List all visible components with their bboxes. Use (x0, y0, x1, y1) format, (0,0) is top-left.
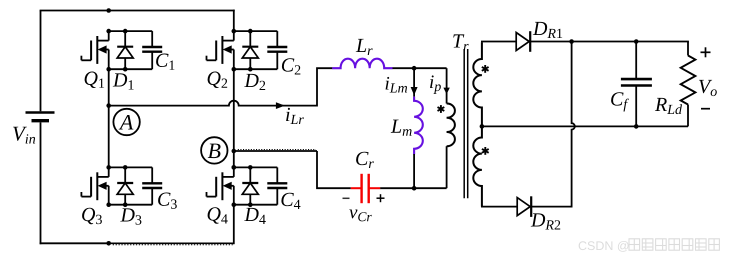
label C1 (156, 54, 174, 70)
wire Q2 branch top (233, 10, 235, 32)
node B cell junction (232, 165, 237, 170)
label Lm (391, 120, 412, 136)
wire junction to primary (414, 67, 447, 69)
wire Q1-Q3 branch mid (108, 69, 110, 167)
transistor Q4 (207, 165, 237, 207)
arrow iLm (411, 87, 418, 95)
wire (234, 68, 277, 70)
capacitor C1 (142, 31, 162, 69)
wire bottom rail solid (40, 242, 109, 244)
label Cf (611, 92, 629, 111)
label plus Vo (701, 51, 711, 53)
label Vin (13, 127, 35, 144)
resistor RLd (681, 56, 696, 105)
inductor Lr (332, 59, 392, 69)
wire (234, 204, 277, 206)
wire RLd branch bottom (687, 105, 689, 127)
label D2 (244, 74, 265, 90)
wire secondary bottom to DR2 (481, 206, 517, 208)
node A junction (106, 103, 111, 108)
capacitor C2 (267, 31, 287, 69)
watermark cjk blocks (629, 239, 719, 250)
node Lr/Lm junction (412, 66, 417, 71)
label D4 (244, 208, 265, 224)
node Cf top junction (634, 39, 639, 44)
wire node B textured (234, 150, 317, 152)
label iLr (286, 108, 304, 124)
wire Lm branch lower (413, 154, 415, 188)
node bottom-rail/Q3 junction (106, 241, 111, 246)
label Q3 (82, 208, 102, 224)
transformer Tr core (463, 49, 465, 198)
wire (109, 68, 153, 70)
wire center tap to output (482, 125, 688, 127)
wire (234, 30, 277, 32)
winding secondary bottom (473, 126, 482, 206)
polarity star primary (440, 105, 442, 113)
inductor Lm (414, 97, 423, 155)
label D1 (113, 73, 134, 89)
label ip (430, 75, 441, 94)
wire left rail upper (40, 11, 42, 112)
label Tr (453, 34, 468, 50)
label DR1 (533, 22, 562, 38)
transistor Q1 (81, 29, 111, 72)
node B circle (201, 137, 227, 163)
wire Lm branch upper (413, 68, 415, 96)
label D3 (120, 208, 141, 224)
polarity star secondary bottom (484, 147, 486, 155)
diode D1 (117, 29, 133, 72)
label plus vCr (377, 197, 385, 199)
node A circle (113, 109, 139, 135)
label Vo (699, 80, 717, 96)
node center tap (480, 124, 485, 129)
wire Cr to junction (380, 187, 414, 189)
wire (109, 30, 153, 32)
winding secondary top (473, 42, 482, 126)
wire primary upper (446, 68, 448, 103)
label RLd (655, 98, 682, 114)
transistor Q2 (207, 29, 237, 72)
watermark CSDN (579, 241, 629, 252)
wire (109, 166, 153, 168)
wire junction to primary bottom (414, 187, 447, 189)
label minus Vo (701, 108, 710, 110)
diode DR1 (516, 31, 530, 52)
label C2 (282, 58, 300, 74)
label C3 (158, 192, 177, 208)
label Q2 (208, 72, 228, 88)
node B junction (232, 149, 237, 154)
diode D4 (242, 165, 258, 207)
wire secondary top to DR1 (481, 41, 516, 43)
node Cr/Lm junction (412, 186, 417, 191)
capacitor Cf (621, 42, 652, 127)
label Q1 (85, 72, 104, 88)
wire DR2 up with crossover hop (530, 42, 575, 207)
wire bottom rail textured (109, 242, 234, 244)
label C4 (281, 193, 300, 209)
label DR2 (531, 213, 560, 229)
wire DR1 to top rail (529, 41, 689, 43)
transistor Q3 (81, 165, 111, 207)
node Cf bottom junction (634, 124, 639, 129)
wire (234, 166, 277, 168)
diode D2 (242, 29, 258, 72)
label iLm (386, 77, 408, 93)
diode DR2 (517, 196, 531, 217)
battery Vin (26, 113, 55, 121)
wire node A to Lr with crossover hop (109, 68, 333, 105)
label Lr (356, 39, 373, 55)
wire left rail lower (40, 122, 42, 244)
wire B corner down to Cr (317, 151, 351, 188)
arrow ip (443, 88, 449, 95)
capacitor C3 (142, 167, 162, 204)
node DR1/DR2 rail junction (569, 39, 574, 44)
label vCr (349, 209, 371, 221)
wire primary lower (446, 146, 448, 188)
wire (109, 204, 153, 206)
node top-rail/Q1 junction (106, 8, 111, 13)
wire top rail (40, 10, 235, 12)
label Cr (356, 152, 374, 168)
wire Q2-Q4 branch mid (233, 69, 235, 167)
wire Q4 branch bottom (233, 205, 235, 245)
diode D3 (117, 165, 133, 207)
label Q4 (208, 207, 228, 223)
label minus vCr (343, 197, 350, 199)
wire Lr to junction (393, 67, 415, 69)
winding primary (447, 103, 455, 146)
arrow iLr (276, 102, 285, 109)
capacitor C4 (267, 167, 287, 204)
wire RLd branch top (687, 42, 689, 56)
polarity star secondary top (484, 65, 486, 73)
capacitor Cr (351, 174, 381, 203)
